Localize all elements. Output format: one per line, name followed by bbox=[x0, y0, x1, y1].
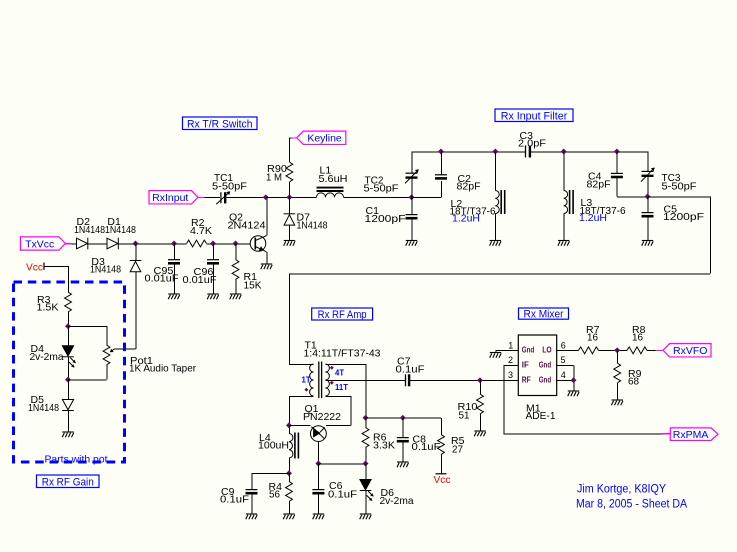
resistor R90 bbox=[286, 162, 293, 182]
svg-text:IF: IF bbox=[522, 360, 529, 370]
wire T1 secondary top bbox=[326, 363, 366, 365]
svg-text:TxVcc: TxVcc bbox=[25, 238, 54, 250]
wire node to C2 bottom bbox=[412, 197, 442, 199]
wire node to D5 bbox=[67, 380, 69, 400]
wire down to Q1 collector bbox=[350, 396, 352, 425]
svg-text:4: 4 bbox=[561, 370, 566, 380]
svg-text:ADE-1: ADE-1 bbox=[526, 410, 556, 422]
wire node to L1 bbox=[266, 197, 317, 199]
svg-text:0.1uF: 0.1uF bbox=[396, 363, 425, 375]
wire C9 to ground bbox=[251, 493, 253, 514]
wire R1 to ground bbox=[235, 280, 237, 294]
wire node to Q1 base bbox=[289, 425, 311, 427]
wire R4 to ground bbox=[288, 502, 290, 514]
wire C5 to ground bbox=[647, 216, 649, 240]
phase dot T1 secondary mid bbox=[330, 381, 334, 385]
wire T1 secondary bottom bbox=[326, 395, 351, 397]
wire pin1 to ground bbox=[496, 350, 519, 352]
svg-text:0.1uF: 0.1uF bbox=[220, 493, 249, 505]
ground (R10) bbox=[474, 431, 486, 436]
resistor R8 bbox=[627, 347, 647, 354]
wire node to R4 bbox=[288, 473, 290, 481]
wire Pot1 bottom lead bbox=[106, 365, 108, 380]
wire C8 to ground bbox=[402, 441, 404, 462]
ground (R1) bbox=[230, 294, 242, 299]
flag RxInput bbox=[149, 191, 198, 204]
inductor L1 bbox=[317, 193, 344, 197]
svg-text:RxInput: RxInput bbox=[152, 192, 188, 204]
junction node D6 top bbox=[363, 461, 369, 467]
wire Q2 collector up bbox=[266, 197, 268, 235]
diode D1 bbox=[107, 238, 118, 250]
svg-text:Rx T/R Switch: Rx T/R Switch bbox=[187, 118, 253, 130]
junction node pins 4/5 bbox=[571, 377, 577, 383]
wire (magenta stub to RxVFO flag) bbox=[656, 350, 664, 352]
resistor R2 bbox=[187, 240, 207, 247]
label box: Rx RF Amp bbox=[312, 308, 373, 321]
wire R6 node to R5 bbox=[366, 417, 442, 419]
capacitor C7 bbox=[406, 374, 410, 386]
wire RxInput to TC1 bbox=[205, 197, 220, 199]
wire IF down bbox=[503, 365, 505, 433]
ground (C8) bbox=[397, 462, 409, 467]
svg-text:0.1uF: 0.1uF bbox=[412, 441, 441, 453]
svg-text:Gnd: Gnd bbox=[522, 345, 535, 355]
label box: Rx Mixer bbox=[519, 308, 569, 321]
svg-text:Jim Kortge, K8IQY: Jim Kortge, K8IQY bbox=[577, 483, 666, 495]
wire Vcc to R3 bbox=[44, 265, 68, 267]
svg-text:1200pF: 1200pF bbox=[663, 211, 704, 223]
wire node to D7 bbox=[289, 197, 291, 214]
wire T1 primary bottom bbox=[289, 395, 314, 397]
wire C4 down bbox=[616, 177, 618, 197]
wire R10 to ground bbox=[479, 414, 481, 431]
dashed box: parts with pot bbox=[14, 282, 125, 462]
resistor R9 bbox=[614, 363, 621, 383]
resistor R1 bbox=[232, 260, 239, 280]
transistor Q1 PN2222 bbox=[311, 426, 327, 442]
wire to D3 bbox=[135, 244, 137, 261]
svg-text:2: 2 bbox=[508, 355, 513, 365]
ground (Q2 emitter) bbox=[261, 264, 273, 269]
svg-text:82pF: 82pF bbox=[587, 178, 611, 190]
capacitor C96 bbox=[207, 260, 219, 264]
wire IF to RxPMA bbox=[504, 433, 663, 435]
resistor R6 bbox=[362, 428, 369, 448]
capacitor C6 bbox=[312, 490, 324, 494]
svg-text:5-50pF: 5-50pF bbox=[662, 180, 697, 192]
svg-text:56: 56 bbox=[269, 488, 280, 500]
wire T1 tap to C7 bbox=[326, 380, 406, 382]
svg-text:1: 1 bbox=[508, 340, 513, 350]
svg-text:5.6uH: 5.6uH bbox=[319, 173, 348, 185]
svg-text:1T: 1T bbox=[302, 376, 311, 385]
svg-text:3.3K: 3.3K bbox=[373, 439, 395, 451]
wire TC1 to node bbox=[227, 197, 266, 199]
trimmer capacitor TC1 bbox=[216, 192, 229, 204]
wire to Q1 collector bbox=[326, 425, 350, 427]
wire TxVcc to D2 bbox=[72, 243, 77, 245]
mixer M1 ADE-1 body bbox=[518, 335, 556, 396]
junction node TC3/C5 bbox=[645, 194, 651, 200]
wire secondary top down to R6 node bbox=[365, 364, 367, 418]
svg-text:2v-2ma: 2v-2ma bbox=[380, 495, 414, 507]
wire rail to C2 bbox=[440, 152, 442, 175]
junction node R6 top bbox=[363, 415, 369, 421]
svg-text:Vcc: Vcc bbox=[434, 474, 451, 486]
wire down to R3 bbox=[67, 266, 69, 292]
capacitor C5 bbox=[642, 213, 654, 217]
svg-text:Mar 8, 2005 - Sheet DA: Mar 8, 2005 - Sheet DA bbox=[576, 498, 687, 510]
junction node R9 top bbox=[614, 347, 620, 353]
label box: Rx Input Filter bbox=[495, 109, 573, 122]
wire C2 bottom vertical bbox=[440, 181, 442, 198]
wire down to T1 primary bbox=[288, 274, 290, 365]
svg-text:Vcc: Vcc bbox=[26, 261, 43, 273]
transistor Q2 2N4124 bbox=[250, 236, 266, 252]
junction node R10 top bbox=[477, 377, 483, 383]
junction node Q1 base / L4 bbox=[286, 422, 292, 428]
svg-text:Rx RF Gain: Rx RF Gain bbox=[42, 476, 94, 488]
wire C1 to ground bbox=[411, 218, 413, 240]
svg-text:51: 51 bbox=[459, 409, 470, 421]
svg-text:1.2uH: 1.2uH bbox=[452, 212, 480, 224]
inductor L2 bbox=[495, 191, 499, 214]
Vcc port tick bbox=[43, 263, 45, 270]
flag RxPMA bbox=[670, 428, 718, 441]
wire C95 to ground bbox=[173, 263, 175, 293]
junction node C8 top bbox=[400, 415, 406, 421]
wire to R1 bbox=[235, 244, 237, 260]
diode D3 bbox=[130, 261, 142, 272]
svg-text:1N4148: 1N4148 bbox=[105, 224, 136, 236]
wire to R5 bbox=[440, 418, 442, 435]
wire pin5 down bbox=[573, 365, 575, 390]
svg-text:1 M: 1 M bbox=[266, 171, 282, 183]
LED D6 bbox=[360, 480, 372, 491]
wire Q2 collector bend bbox=[264, 236, 267, 237]
wire rail to L2 bbox=[495, 152, 497, 191]
wire (magenta stub to RxPMA flag) bbox=[663, 433, 671, 435]
wire node to C6 bbox=[318, 464, 320, 490]
wire C96 to ground bbox=[212, 263, 214, 293]
wire node to D6 bbox=[365, 464, 367, 480]
wire top rail right segment bbox=[531, 151, 648, 153]
svg-text:16: 16 bbox=[587, 331, 598, 343]
wire Pot1 bottom to node bbox=[68, 379, 107, 381]
junction node R90/D7 bbox=[286, 194, 292, 200]
capacitor C3 bbox=[526, 146, 530, 158]
pot wiper arrow bbox=[111, 349, 115, 352]
svg-text:4T: 4T bbox=[335, 368, 344, 377]
phase dot T1 secondary top bbox=[330, 366, 334, 370]
wire TC3 to node bbox=[647, 176, 649, 197]
svg-text:RxPMA: RxPMA bbox=[673, 429, 709, 441]
inductor L3 bbox=[564, 191, 568, 214]
capacitor C4 bbox=[611, 173, 623, 177]
phase dot T1 primary bbox=[304, 388, 308, 392]
svg-text:Gnd: Gnd bbox=[539, 375, 552, 385]
svg-text:15K: 15K bbox=[244, 279, 262, 291]
diode D5 bbox=[62, 400, 74, 411]
flag RxVFO bbox=[663, 344, 711, 357]
wire C4 to TC3/C5 node bbox=[617, 196, 648, 198]
wire node to R9 bbox=[616, 350, 618, 363]
wire filter output right bbox=[648, 196, 711, 198]
wire (magenta stub from TxVcc flag) bbox=[65, 243, 71, 245]
svg-text:Rx Input Filter: Rx Input Filter bbox=[501, 110, 568, 122]
wire pin6 LO out bbox=[557, 350, 579, 352]
junction node R1 tap bbox=[233, 241, 239, 247]
wire node to R6 bbox=[365, 418, 367, 428]
capacitor C9 bbox=[246, 490, 258, 494]
svg-text:RF: RF bbox=[522, 375, 531, 385]
svg-text:2v-2ma: 2v-2ma bbox=[30, 351, 64, 363]
wire to C96 bbox=[212, 244, 214, 260]
svg-text:27: 27 bbox=[452, 443, 463, 455]
ground (L3) bbox=[558, 241, 570, 246]
wire down to Q1 base node bbox=[288, 396, 290, 425]
wire node to L4 bbox=[288, 425, 290, 433]
capacitor C2 bbox=[435, 175, 447, 179]
wire R5 to Vcc bbox=[440, 455, 442, 474]
ground (L2) bbox=[490, 241, 502, 246]
svg-text:0.1uF: 0.1uF bbox=[328, 488, 357, 500]
svg-text:0.01uF: 0.01uF bbox=[145, 272, 179, 284]
wire D5 to ground bbox=[67, 411, 69, 432]
junction node L4/R4/C9 bbox=[286, 470, 292, 476]
svg-text:Rx RF Amp: Rx RF Amp bbox=[318, 309, 367, 321]
wire top rail left segment bbox=[412, 151, 526, 153]
wire pot wiper horizontal bbox=[115, 348, 136, 350]
trimmer capacitor TC2 bbox=[411, 152, 413, 174]
junction node D3 tap bbox=[133, 241, 139, 247]
svg-text:Parts with pot: Parts with pot bbox=[45, 453, 108, 465]
junction node C96 tap bbox=[210, 241, 216, 247]
svg-text:2.0pF: 2.0pF bbox=[518, 137, 546, 149]
junction node D4/D5/pot bbox=[65, 377, 71, 383]
ground (R4) bbox=[283, 514, 295, 519]
capacitor C95 bbox=[168, 260, 180, 264]
wire C9 top lead bbox=[251, 473, 253, 489]
junction node TC2/C1 bbox=[409, 194, 415, 200]
svg-text:Rx Mixer: Rx Mixer bbox=[524, 309, 564, 321]
svg-text:Keyline: Keyline bbox=[307, 133, 342, 145]
svg-text:5-50pF: 5-50pF bbox=[212, 180, 247, 192]
svg-text:82pF: 82pF bbox=[457, 180, 481, 192]
svg-text:100uH: 100uH bbox=[258, 439, 289, 451]
wire D2 to D1 bbox=[88, 243, 107, 245]
wire TC2 to node bbox=[411, 178, 413, 198]
ground (R9) bbox=[611, 400, 623, 405]
junction node R3/D4/pot bbox=[65, 323, 71, 329]
transformer T1 primary (1T) bbox=[310, 364, 314, 396]
wire R3 to node bbox=[67, 312, 69, 326]
wire L3 to ground bbox=[563, 214, 565, 241]
wire to T1 primary top bbox=[289, 363, 314, 365]
junction node L2 top bbox=[492, 149, 498, 155]
wire node to D4 bbox=[67, 326, 69, 346]
svg-text:4.7K: 4.7K bbox=[190, 225, 212, 237]
wire D6 to ground bbox=[365, 491, 367, 514]
transformer T1 core bbox=[319, 362, 322, 399]
wire filter output across bbox=[289, 273, 710, 275]
svg-text:0.01uF: 0.01uF bbox=[183, 274, 217, 286]
junction node Q2 collector bbox=[263, 194, 269, 200]
wire Q2 emitter bend bbox=[264, 250, 267, 252]
wire (magenta stub from RxInput flag) bbox=[198, 197, 205, 199]
wire Pot1 top lead bbox=[106, 326, 108, 345]
potentiometer Pot1 bbox=[103, 345, 110, 365]
diode D7 bbox=[284, 214, 296, 225]
flag Keyline bbox=[297, 131, 346, 144]
svg-text:68: 68 bbox=[628, 375, 639, 387]
svg-text:2N4124: 2N4124 bbox=[228, 219, 266, 231]
Vcc port tick (bottom) bbox=[436, 473, 447, 475]
wire pin2 IF out bbox=[504, 365, 519, 367]
resistor R10 bbox=[477, 394, 484, 414]
svg-text:Gnd: Gnd bbox=[539, 360, 552, 370]
diode D2 bbox=[77, 238, 88, 250]
LED D4 bbox=[62, 346, 74, 357]
wire R7 to R8 bbox=[599, 350, 628, 352]
wire D7 to ground bbox=[289, 225, 291, 241]
resistor R3 bbox=[65, 292, 72, 312]
wire node to R10 bbox=[479, 380, 481, 394]
resistor R4 bbox=[286, 482, 293, 502]
junction node Q1 emitter / C6 bbox=[315, 461, 321, 467]
wire L2 to ground bbox=[495, 214, 497, 241]
wire D1 to R2 bbox=[118, 243, 186, 245]
ground (C96) bbox=[207, 294, 219, 299]
wire node to C1 bbox=[411, 197, 413, 214]
wire R6 to emitter node bbox=[365, 448, 367, 464]
label box: Rx T/R Switch bbox=[183, 117, 258, 130]
flag TxVcc bbox=[20, 237, 65, 250]
wire node to C9 bbox=[252, 473, 290, 475]
capacitor C8 bbox=[397, 438, 409, 442]
svg-text:1.5K: 1.5K bbox=[37, 301, 59, 313]
svg-text:3: 3 bbox=[508, 370, 513, 380]
wire pin1 ground drop bbox=[495, 350, 497, 352]
svg-text:5-50pF: 5-50pF bbox=[364, 182, 399, 194]
wire pin5 right bbox=[557, 365, 574, 367]
resistor R7 bbox=[579, 347, 599, 354]
ground (C1) bbox=[406, 241, 418, 246]
ground (M1 pins 4/5) bbox=[568, 391, 580, 396]
wire R9 to ground bbox=[616, 383, 618, 400]
wire D4 to node bbox=[67, 357, 69, 380]
wire C7 to mixer RF pin bbox=[409, 380, 518, 382]
wire pin4 right bbox=[557, 379, 574, 381]
svg-text:1.2uH: 1.2uH bbox=[579, 212, 607, 224]
ground (C9) bbox=[246, 514, 258, 519]
wire C6 to ground bbox=[318, 493, 320, 514]
wire D3 to pot wiper bbox=[135, 271, 137, 349]
junction node C2 top bbox=[438, 149, 444, 155]
svg-text:16: 16 bbox=[632, 331, 643, 343]
svg-text:PN2222: PN2222 bbox=[303, 411, 341, 423]
ground (C95) bbox=[168, 294, 180, 299]
inductor L4 bbox=[289, 434, 293, 459]
junction node C4 top bbox=[614, 149, 620, 155]
trimmer capacitor TC3 bbox=[647, 152, 649, 172]
wire Keyline down to R90 bbox=[289, 138, 291, 162]
svg-text:1200pF: 1200pF bbox=[365, 213, 406, 225]
svg-text:1N4148: 1N4148 bbox=[90, 264, 121, 276]
transformer T1 secondary (4T+11T) bbox=[326, 364, 330, 396]
svg-text:1K Audio Taper: 1K Audio Taper bbox=[129, 362, 196, 374]
svg-text:LO: LO bbox=[542, 345, 552, 355]
wire R90 to node bbox=[289, 182, 291, 197]
svg-text:1N4148: 1N4148 bbox=[74, 224, 105, 236]
wire node to C8 bbox=[402, 418, 404, 438]
wire rail to L3 bbox=[563, 152, 565, 191]
ground (M1 pin1) bbox=[490, 353, 502, 358]
svg-text:1N4148: 1N4148 bbox=[297, 219, 328, 231]
ground (D5) bbox=[62, 432, 73, 437]
svg-text:1:4:11T/FT37-43: 1:4:11T/FT37-43 bbox=[304, 347, 381, 359]
ground (C5) bbox=[642, 241, 654, 246]
wire rail to C4 bbox=[616, 152, 618, 174]
svg-text:11T: 11T bbox=[335, 383, 348, 392]
wire Q1 emitter down bbox=[318, 442, 320, 464]
svg-text:1N4148: 1N4148 bbox=[28, 402, 59, 414]
ground (D6) bbox=[360, 514, 372, 519]
svg-text:RxVFO: RxVFO bbox=[673, 345, 707, 357]
svg-text:6: 6 bbox=[561, 340, 566, 350]
wire filter output down bbox=[709, 197, 711, 274]
wire Q2 emitter down bbox=[266, 252, 268, 264]
wire emitter node to D6 node bbox=[318, 463, 365, 465]
junction node L3 top bbox=[561, 149, 567, 155]
ground (D7) bbox=[284, 241, 296, 246]
wire Keyline corner bbox=[289, 137, 291, 139]
junction node C95 tap bbox=[171, 241, 177, 247]
svg-text:5: 5 bbox=[561, 355, 566, 365]
wire to C95 bbox=[173, 244, 175, 260]
capacitor C1 bbox=[406, 215, 418, 219]
wire node to Pot1 top bbox=[68, 325, 107, 327]
label box: Rx RF Gain bbox=[37, 475, 100, 488]
wire R8 to RxVFO bbox=[647, 350, 656, 352]
wire (magenta stub from Keyline flag) bbox=[292, 137, 297, 139]
wire L4 to node bbox=[288, 458, 290, 473]
wire L1 to TC2/C1 node bbox=[344, 197, 412, 199]
resistor R5 bbox=[438, 435, 445, 455]
wire node to C5 bbox=[647, 197, 649, 213]
wire R2 to Q2 base bbox=[207, 243, 251, 245]
ground (C6) bbox=[313, 514, 325, 519]
